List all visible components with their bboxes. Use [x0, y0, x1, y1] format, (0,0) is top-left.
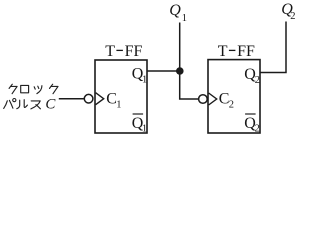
label: T-FF (FF2) [218, 43, 255, 60]
pin label Q1 [132, 66, 147, 86]
wire: junction down and right to FF2 clock bubble [180, 71, 199, 99]
svg-text:2: 2 [229, 100, 234, 111]
dynamic input indicator FF1 [96, 93, 104, 105]
svg-text:2: 2 [255, 75, 260, 86]
svg-text:T: T [105, 43, 115, 60]
svg-text:FF: FF [237, 43, 255, 60]
label: パルス (pulse, line 2) [4, 99, 41, 109]
svg-text:2: 2 [255, 124, 260, 135]
svg-text:2: 2 [290, 11, 295, 22]
wire: Q2 output and up to Q2 terminal [260, 22, 286, 73]
node label Q1 [169, 2, 187, 24]
wire: clock input to FF1 bubble [59, 98, 85, 100]
svg-text:1: 1 [142, 124, 147, 135]
node label Q2 [281, 1, 295, 22]
svg-text:FF: FF [125, 43, 143, 60]
junction node [176, 67, 184, 75]
pin label Q-bar-2 [244, 114, 260, 135]
svg-text:C: C [45, 97, 56, 113]
pin label Q2 [244, 66, 260, 86]
dynamic input indicator FF2 [209, 93, 217, 105]
pin label C2 [219, 91, 234, 111]
svg-text:Q: Q [169, 2, 181, 19]
bubble: FF2 inverted clock input [199, 95, 208, 104]
pin label Q-bar-1 [132, 114, 147, 135]
svg-text:1: 1 [182, 13, 187, 24]
svg-text:1: 1 [116, 100, 121, 111]
wire: Q1 output to junction [147, 70, 180, 72]
label: T-FF (FF1) [105, 43, 142, 60]
bubble: FF1 inverted clock input [84, 94, 93, 103]
flip-flop U2 box [208, 60, 260, 133]
pin label C1 [106, 91, 121, 111]
svg-text:1: 1 [142, 75, 147, 86]
wire: junction up to Q1 terminal [179, 23, 181, 72]
flip-flop U1 box [95, 60, 147, 133]
svg-text:T: T [218, 43, 228, 60]
label: クロック (clock, line 1) [9, 84, 58, 94]
